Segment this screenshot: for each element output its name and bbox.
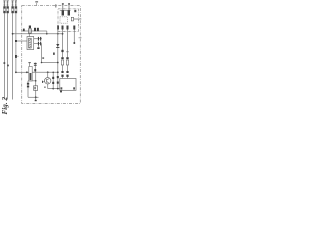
ground stub under C3 [37, 45, 39, 47]
wire column x67.5 (pin P3 down) [67, 30, 69, 58]
element E2 blobs on main column [57, 76, 59, 78]
pin resistor P3 [67, 26, 69, 30]
pin resistor P4 [73, 26, 75, 30]
wire stub crossing boundary at x62.8 [62, 4, 64, 10]
choke FB1 on B2 [29, 26, 31, 29]
wire from R1 right at y43.5 [34, 43, 42, 45]
wire W3 (supply line 3) [12, 3, 14, 100]
label L1 above W1 [3, 0, 5, 6]
node J13 [57, 88, 59, 90]
capacitor C2 [38, 37, 39, 41]
node J8 [26, 71, 28, 73]
node on bus at x62.5 [62, 33, 64, 35]
node J2 [57, 33, 59, 35]
component blob top right of U1 [74, 10, 76, 12]
junction blob on x62.5 [61, 50, 63, 52]
rail y88.6 [48, 88, 60, 90]
resistor R2 inside R1 [29, 38, 32, 48]
node J1 [12, 33, 14, 35]
capacitor C5 (column x62.5) [61, 57, 63, 59]
wire from R1 right at y38.7 [34, 38, 42, 40]
base lead into Q1 [42, 81, 44, 83]
ref numeral 24 left of U1 [55, 4, 56, 7]
diode D1 on x57.8 [56, 44, 59, 47]
ECU boundary (dash-dot rectangle) [22, 6, 81, 104]
driver box K (small) [34, 86, 38, 91]
pin resistor P1 [57, 26, 59, 30]
Q1 emitter down to rail [47, 84, 49, 89]
transceiver U1 (inner dash-dot box, top right) [58, 9, 79, 32]
bus B2 (horizontal y31) [22, 30, 47, 32]
node J6 [57, 62, 59, 64]
IC U2 (small dashed box inside U1) [60, 17, 67, 23]
tick on x67.5 [66, 51, 68, 53]
wire W4 (supply line 4) [15, 3, 17, 73]
ref numeral 14 beside W1 [4, 62, 6, 64]
connector F4 on W4 [15, 7, 17, 14]
Q1 collector up to y72.3 [47, 72, 49, 77]
regulator R1 (box) [27, 37, 34, 50]
horizontal wire y62.5 [42, 62, 58, 64]
junction blob at W4/branch [15, 40, 17, 42]
wire x35.7 down [35, 72, 37, 86]
wire W2 (supply line 2) [7, 3, 9, 100]
ref numeral 12 leader at top [36, 3, 38, 6]
horizontal wire y72.3 [16, 71, 29, 73]
node J10 [57, 71, 59, 73]
wire top rail in U1 [60, 9, 71, 11]
output block BB (box bottom right) [60, 79, 76, 91]
wire x41.5 down from C3 line [41, 44, 43, 63]
node N1 on W4 (tap) [15, 55, 17, 58]
transistor Q1 (circle) [45, 78, 51, 84]
wire W1 (supply line 1) [4, 3, 6, 100]
lead crossing right edge of U1 and boundary [74, 18, 82, 20]
wire stub crossing boundary at x69 [68, 4, 70, 10]
horizontal wire y80.8 [28, 80, 36, 82]
label L3 above W3 [12, 0, 14, 6]
node J6b [41, 62, 43, 64]
wire branch W4 to R1 at y41 [16, 40, 27, 42]
wire column x57.8 (main vertical) [57, 26, 59, 89]
capacitor CV between y62.5 and y72.3 [34, 63, 36, 73]
ref numeral blob left of diode [53, 53, 55, 55]
ref numeral mark near Q1 [44, 87, 46, 88]
ref tick crossing right boundary [79, 37, 82, 39]
bus B1 (horizontal y33.8) [13, 33, 63, 35]
element E1 (vertical at x53.2) [52, 72, 54, 88]
wire K bottom down [35, 90, 37, 97]
capacitor C4 (vertical at x28) [27, 81, 29, 98]
resistor R6 [68, 10, 70, 15]
wire R1 top to bus B1 [28, 34, 30, 37]
resistor box RB (vertical) [29, 67, 32, 82]
wire column x74.3 (pin P4 down) [73, 30, 75, 44]
component X1 right of U2 [71, 17, 73, 21]
connector F3 on W3 [12, 7, 14, 14]
node at end of P4 wire [73, 42, 75, 44]
label L4 above W4 [15, 0, 17, 6]
ground stub below rail [35, 97, 37, 100]
connector F1 on W1 [4, 7, 6, 14]
capacitor C3 [38, 42, 39, 46]
ground rail y97.3 [28, 96, 39, 98]
svg-text:Fig. 2: Fig. 2 [1, 97, 9, 115]
resistor R5 [62, 10, 64, 15]
ref numeral mark near RB [42, 57, 44, 59]
ground blob under rail [60, 91, 62, 93]
capacitor C1 (pair on B2) [34, 28, 36, 31]
junction blob on B2 entry [23, 29, 25, 32]
node J11 [35, 96, 37, 98]
ref numeral 16 beside W2 [7, 65, 9, 67]
node J7 (W4 end) [15, 71, 17, 73]
wire column x62.5 (pin P2 down) [62, 30, 64, 58]
connector F2 on W2 [7, 7, 9, 14]
wire RB top to y62.5 [29, 63, 31, 67]
pin resistor P2 [62, 26, 64, 30]
text mark inside BB right [73, 87, 75, 89]
node J9 [47, 71, 49, 73]
jog from B2 down to B1 [46, 31, 48, 34]
capacitor C6 (column x67.5) [66, 57, 68, 59]
node J12 [52, 88, 54, 90]
text mark inside BB left [61, 87, 63, 89]
label L2 above W2 [7, 0, 9, 6]
